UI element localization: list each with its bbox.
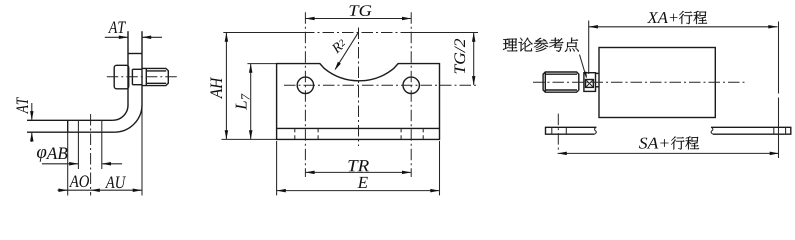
label L1 (rotated) bbox=[236, 93, 250, 109]
label SA+stroke bbox=[639, 138, 647, 149]
horizontal hole centerline bbox=[284, 84, 478, 86]
dimension AT left arrows bbox=[31, 103, 33, 120]
cylinder centerline bbox=[533, 81, 746, 83]
dimension XA bbox=[589, 26, 778, 28]
dimension TR bbox=[305, 171, 411, 173]
label AO bbox=[69, 175, 79, 187]
label phi-AB bbox=[37, 149, 46, 162]
right mounting hole bbox=[403, 77, 419, 93]
dimension line AO/AU bbox=[58, 189, 142, 191]
label lilun-cankaodian bbox=[503, 38, 518, 51]
foot hole centerline bbox=[90, 114, 92, 196]
right foot plate (side view) bbox=[711, 127, 791, 134]
label TR bbox=[348, 160, 358, 171]
rod end block bbox=[584, 73, 596, 92]
extension line below plate right edge bbox=[141, 105, 143, 195]
bolt shank through plate bbox=[132, 68, 142, 70]
rod collar bbox=[596, 72, 600, 74]
label XA+stroke bbox=[647, 12, 658, 23]
left foot plate (side view) bbox=[546, 127, 597, 134]
extension line XA left bbox=[588, 21, 590, 75]
dimension TG/2 bbox=[473, 33, 475, 85]
plate top edge extension (left) bbox=[247, 63, 276, 65]
label R2 bbox=[331, 38, 347, 54]
right foot hole edges bbox=[773, 127, 775, 134]
left foot slot hidden lines bbox=[294, 128, 296, 139]
base strip line bbox=[277, 127, 440, 129]
extension line E left bbox=[276, 141, 278, 195]
bolt head bbox=[114, 65, 129, 89]
dimension SA bbox=[558, 152, 779, 154]
bend inner arc bbox=[113, 105, 128, 120]
label AH (rotated) bbox=[210, 77, 222, 99]
foot bottom line bbox=[27, 131, 115, 133]
bracket vertical plate (side view) bbox=[127, 31, 129, 105]
plate bottom extension (left) bbox=[222, 138, 277, 140]
right foot slot hidden lines bbox=[400, 128, 402, 139]
extension line foot left end bbox=[67, 132, 69, 195]
cylinder body bbox=[599, 48, 715, 118]
left hole vertical centerline bbox=[304, 12, 306, 177]
foot hole left edge bbox=[77, 120, 79, 169]
leader R2 bbox=[335, 33, 358, 69]
dimension phi-AB arrows bbox=[42, 163, 78, 165]
theoretical reference point marker bbox=[586, 80, 594, 88]
right hole vertical centerline bbox=[410, 12, 412, 177]
label AT (left, rotated) bbox=[16, 97, 28, 114]
left foot centerline bbox=[557, 114, 559, 150]
foot hole right edge bbox=[101, 120, 103, 169]
right foot centerline bbox=[778, 22, 780, 94]
piston rod thread bbox=[543, 72, 579, 92]
foot top line bbox=[27, 119, 113, 121]
dimension E bbox=[277, 190, 440, 192]
dimension TG bbox=[305, 18, 411, 20]
label TG bbox=[349, 5, 359, 15]
middle vertical centerline bbox=[358, 28, 360, 147]
dimension AH bbox=[225, 33, 227, 139]
label TG/2 (rotated) bbox=[454, 39, 465, 74]
bolt centerline bbox=[107, 76, 178, 78]
label AT (top) bbox=[108, 21, 117, 33]
dimension L1 bbox=[250, 64, 252, 139]
leader to reference point bbox=[580, 55, 587, 78]
left foot hole edges bbox=[551, 127, 553, 134]
bolt thread (left view) bbox=[142, 68, 168, 85]
dimension AT top arrows bbox=[105, 36, 128, 38]
extension line E right bbox=[439, 141, 441, 195]
bracket front face outline bbox=[277, 64, 440, 140]
bend outer arc bbox=[115, 105, 142, 132]
left mounting hole bbox=[297, 77, 313, 93]
label AU bbox=[105, 176, 115, 188]
label E bbox=[358, 177, 368, 188]
foot left end edge bbox=[67, 120, 69, 132]
cylinder axis line bbox=[223, 32, 303, 34]
